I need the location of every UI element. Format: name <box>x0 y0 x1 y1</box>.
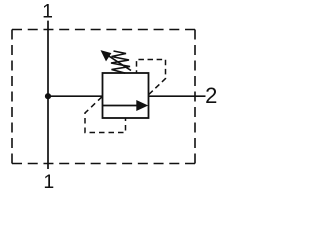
relief valve body (square) <box>103 73 149 118</box>
svg-text:2: 2 <box>205 83 217 108</box>
pilot line: inlet to valve bottom (dashed, lower left) <box>85 97 126 133</box>
node: junction dot <box>45 93 51 99</box>
pilot line: outlet to spring chamber (dashed, upper right) <box>137 60 166 95</box>
spring (adjustable) <box>111 51 130 73</box>
wire: valve outlet to port 2 <box>149 95 206 97</box>
wire: port 1 vertical line <box>47 21 49 169</box>
flow arrow inside valve <box>103 100 149 111</box>
svg-text:1: 1 <box>43 171 54 193</box>
svg-text:1: 1 <box>42 0 53 22</box>
adjustment arrow through spring <box>101 50 132 70</box>
wire: node to valve inlet <box>48 95 103 97</box>
valve envelope (dashed boundary box) <box>12 30 195 164</box>
